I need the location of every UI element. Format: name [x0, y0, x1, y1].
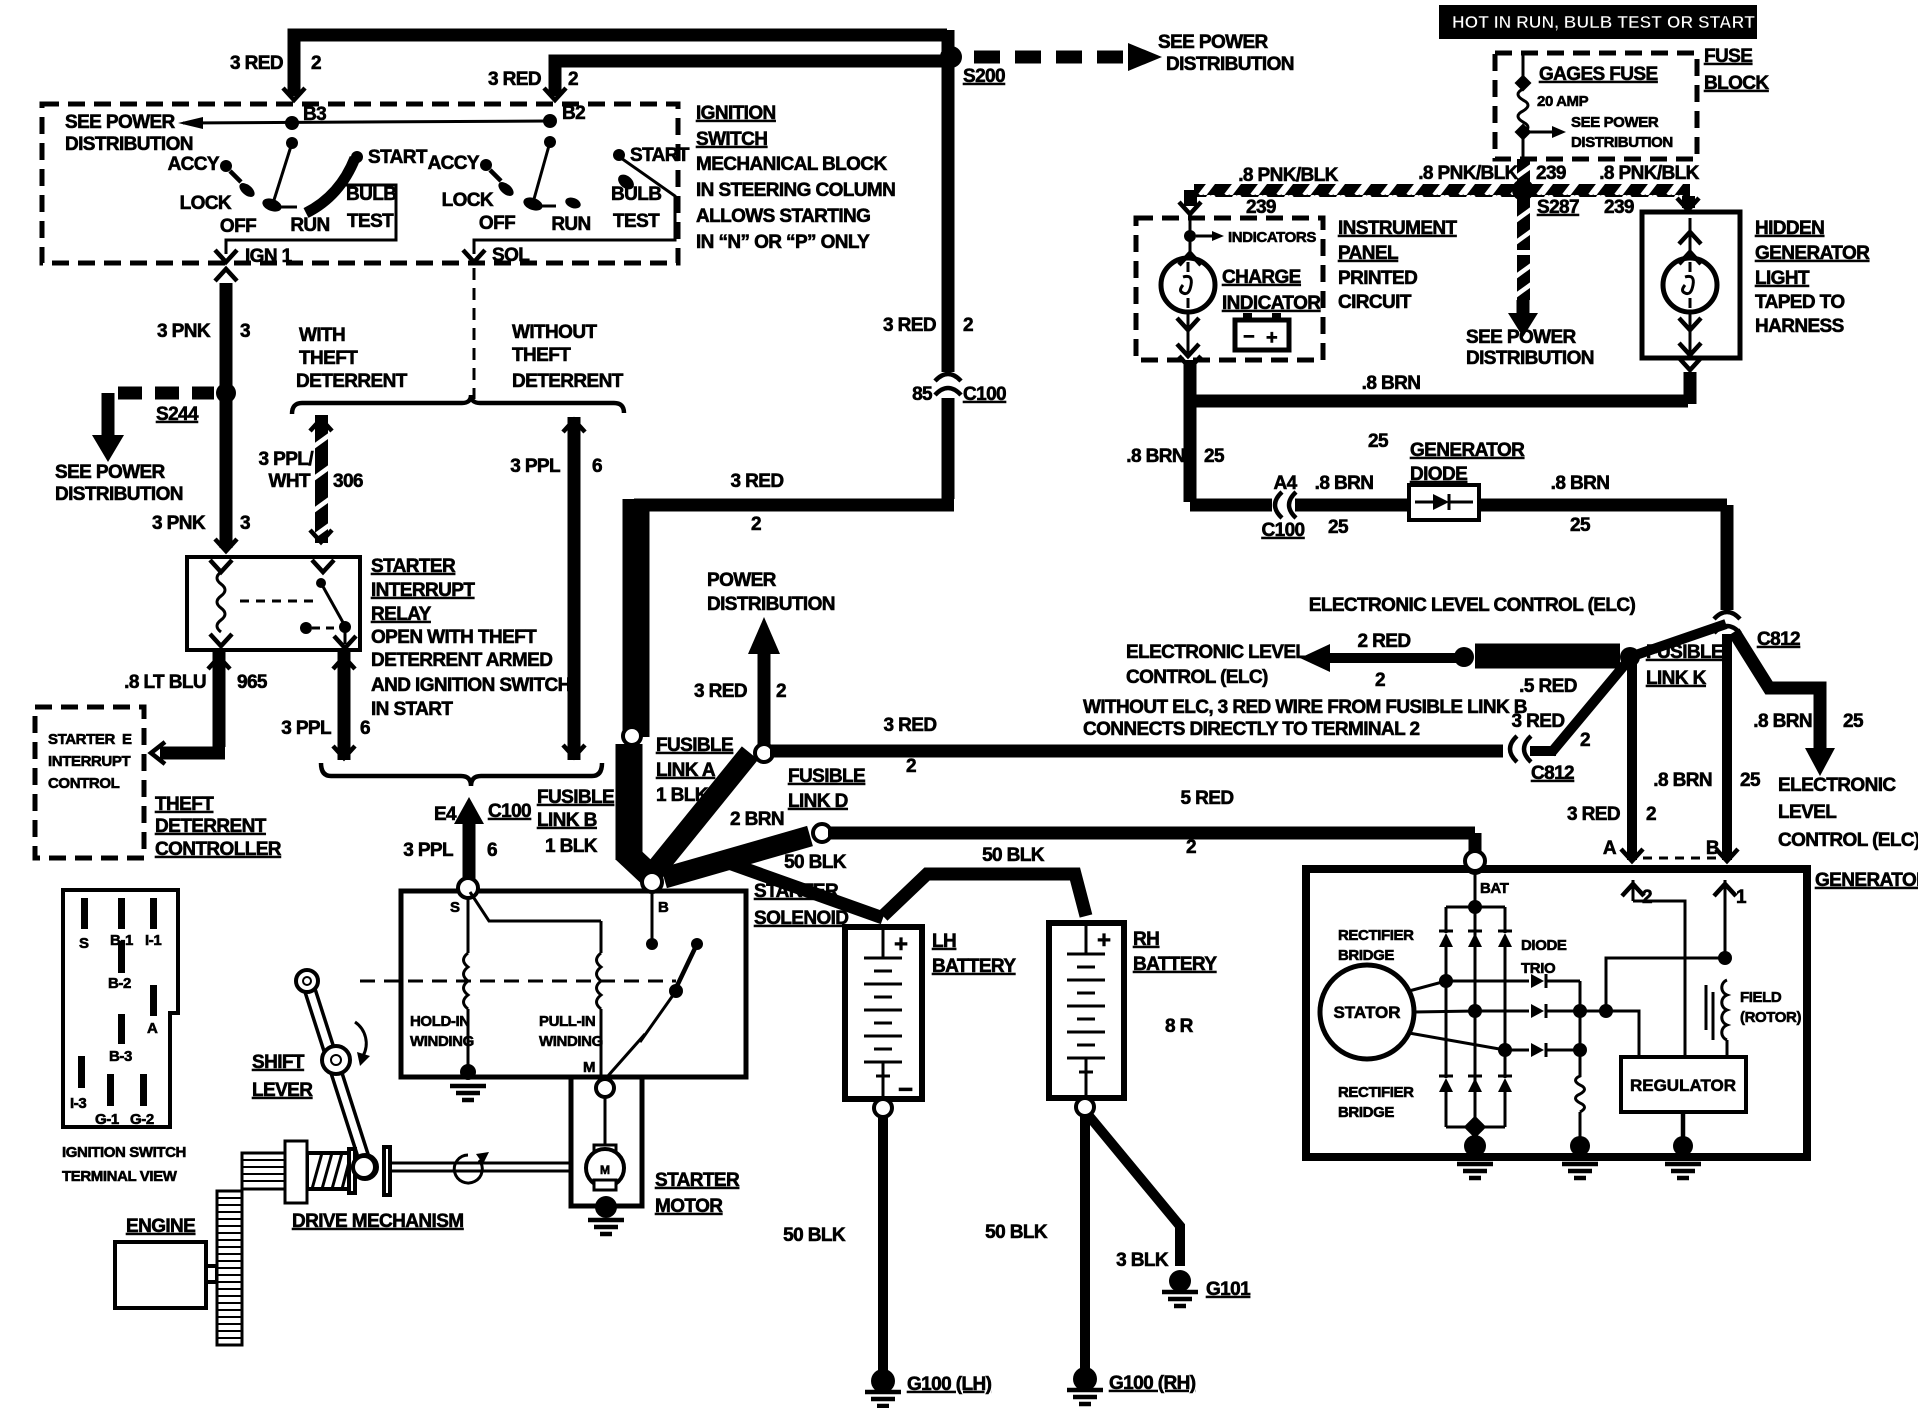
svg-text:IGNITION: IGNITION: [696, 103, 776, 124]
svg-text:E4: E4: [434, 804, 457, 825]
svg-text:50 BLK: 50 BLK: [985, 1222, 1048, 1243]
svg-text:LINK D: LINK D: [788, 791, 848, 812]
svg-text:LINK A: LINK A: [656, 760, 716, 781]
svg-text:S287: S287: [1537, 197, 1579, 218]
svg-text:TEST: TEST: [347, 211, 394, 232]
svg-text:2 BRN: 2 BRN: [730, 809, 784, 830]
svg-text:(ROTOR): (ROTOR): [1740, 1009, 1801, 1026]
svg-text:INDICATOR: INDICATOR: [1222, 293, 1321, 314]
svg-text:I-1: I-1: [145, 932, 161, 949]
svg-text:3 RED: 3 RED: [488, 69, 541, 90]
svg-text:BATTERY: BATTERY: [1133, 954, 1217, 975]
svg-text:DISTRIBUTION: DISTRIBUTION: [65, 134, 193, 155]
svg-text:SEE POWER: SEE POWER: [1158, 32, 1269, 53]
svg-text:SEE POWER: SEE POWER: [65, 112, 176, 133]
svg-text:I-3: I-3: [70, 1095, 86, 1112]
svg-text:2: 2: [568, 69, 578, 90]
svg-text:TERMINAL VIEW: TERMINAL VIEW: [62, 1168, 178, 1185]
svg-text:ELECTRONIC: ELECTRONIC: [1778, 775, 1896, 796]
svg-text:25: 25: [1328, 517, 1349, 538]
svg-text:G100 (RH): G100 (RH): [1109, 1373, 1196, 1394]
svg-text:ENGINE: ENGINE: [126, 1216, 195, 1237]
svg-text:+: +: [1266, 327, 1278, 349]
svg-text:START: START: [630, 145, 690, 166]
svg-text:GAGES FUSE: GAGES FUSE: [1539, 64, 1658, 85]
svg-text:3: 3: [240, 513, 250, 534]
svg-text:2: 2: [311, 53, 321, 74]
svg-text:50 BLK: 50 BLK: [982, 845, 1045, 866]
svg-text:.8 BRN: .8 BRN: [1551, 473, 1610, 494]
svg-text:2: 2: [1186, 837, 1196, 858]
svg-text:85: 85: [912, 384, 933, 405]
svg-text:LEVER: LEVER: [252, 1080, 313, 1101]
svg-text:WITH: WITH: [299, 325, 345, 346]
svg-text:+: +: [894, 931, 908, 958]
svg-text:WITHOUT ELC, 3 RED WIRE FROM F: WITHOUT ELC, 3 RED WIRE FROM FUSIBLE LIN…: [1083, 697, 1527, 718]
svg-text:.8 PNK/BLK: .8 PNK/BLK: [1238, 165, 1338, 186]
svg-text:THEFT: THEFT: [155, 794, 214, 815]
svg-text:M: M: [600, 1163, 610, 1177]
svg-text:FUSIBLE: FUSIBLE: [537, 787, 614, 808]
svg-text:OFF: OFF: [220, 216, 256, 237]
svg-text:CONTROL: CONTROL: [48, 775, 120, 792]
svg-text:3 PPL/: 3 PPL/: [259, 449, 315, 470]
svg-text:LEVEL: LEVEL: [1778, 802, 1837, 823]
svg-text:B-1: B-1: [110, 932, 133, 949]
svg-text:FUSIBLE: FUSIBLE: [656, 735, 733, 756]
svg-text:B: B: [658, 899, 669, 916]
svg-text:3 RED: 3 RED: [230, 53, 283, 74]
svg-text:LOCK: LOCK: [180, 193, 232, 214]
svg-text:DETERRENT: DETERRENT: [296, 371, 408, 392]
svg-text:ALLOWS STARTING: ALLOWS STARTING: [696, 206, 870, 227]
svg-text:LH: LH: [932, 931, 956, 952]
svg-text:C100: C100: [963, 384, 1006, 405]
svg-text:WINDING: WINDING: [410, 1033, 474, 1050]
svg-text:DISTRIBUTION: DISTRIBUTION: [1166, 54, 1294, 75]
svg-text:6: 6: [360, 718, 370, 739]
svg-text:OPEN WITH THEFT: OPEN WITH THEFT: [371, 627, 537, 648]
svg-text:INDICATORS: INDICATORS: [1228, 229, 1316, 246]
svg-text:DISTRIBUTION: DISTRIBUTION: [707, 594, 835, 615]
svg-text:SHIFT: SHIFT: [252, 1052, 305, 1073]
svg-text:TEST: TEST: [613, 211, 660, 232]
svg-text:G-1: G-1: [95, 1111, 119, 1128]
svg-text:3 RED: 3 RED: [731, 471, 784, 492]
svg-text:DIODE: DIODE: [1410, 464, 1467, 485]
svg-text:1 BLK: 1 BLK: [656, 785, 709, 806]
svg-text:CONTROL (ELC): CONTROL (ELC): [1778, 830, 1918, 851]
svg-text:INSTRUMENT: INSTRUMENT: [1338, 218, 1458, 239]
svg-text:1: 1: [1736, 887, 1747, 908]
svg-text:3 PPL: 3 PPL: [510, 456, 561, 477]
svg-text:STARTER: STARTER: [371, 556, 456, 577]
svg-text:50 BLK: 50 BLK: [784, 852, 847, 873]
svg-text:ELECTRONIC LEVEL CONTROL (ELC): ELECTRONIC LEVEL CONTROL (ELC): [1309, 595, 1636, 616]
svg-text:BATTERY: BATTERY: [932, 956, 1016, 977]
svg-text:STARTER: STARTER: [48, 731, 115, 748]
svg-text:GENERATOR: GENERATOR: [1755, 243, 1870, 264]
svg-text:IN “N” OR “P” ONLY: IN “N” OR “P” ONLY: [696, 232, 870, 253]
svg-text:IGNITION SWITCH: IGNITION SWITCH: [62, 1144, 186, 1161]
svg-text:2: 2: [1642, 887, 1652, 908]
svg-text:BAT: BAT: [1480, 880, 1509, 897]
svg-text:RECTIFIER: RECTIFIER: [1338, 927, 1414, 944]
svg-text:E: E: [122, 731, 132, 748]
svg-text:HARNESS: HARNESS: [1755, 316, 1844, 337]
svg-text:SEE POWER: SEE POWER: [1466, 327, 1577, 348]
svg-text:G101: G101: [1206, 1279, 1251, 1300]
svg-text:LOCK: LOCK: [442, 190, 494, 211]
svg-text:IN STEERING COLUMN: IN STEERING COLUMN: [696, 180, 895, 201]
svg-text:DETERRENT ARMED: DETERRENT ARMED: [371, 650, 552, 671]
svg-text:CHARGE: CHARGE: [1222, 267, 1301, 288]
svg-text:RUN: RUN: [551, 214, 590, 235]
svg-text:SOLENOID: SOLENOID: [754, 908, 848, 929]
svg-text:.8 BRN: .8 BRN: [1126, 446, 1185, 467]
svg-text:A: A: [147, 1020, 158, 1037]
svg-text:3 RED: 3 RED: [694, 681, 747, 702]
svg-text:INTERRUPT: INTERRUPT: [48, 753, 130, 770]
svg-text:RUN: RUN: [290, 215, 329, 236]
svg-text:IGN 1: IGN 1: [245, 246, 293, 267]
svg-text:REGULATOR: REGULATOR: [1630, 1076, 1736, 1095]
svg-text:THEFT: THEFT: [299, 348, 358, 369]
svg-text:AND IGNITION SWITCH: AND IGNITION SWITCH: [371, 675, 571, 696]
svg-text:A: A: [1603, 838, 1617, 859]
svg-text:SOL: SOL: [492, 245, 530, 266]
svg-text:HOLD-IN: HOLD-IN: [410, 1013, 470, 1030]
svg-text:2: 2: [1375, 670, 1385, 691]
svg-text:3 RED: 3 RED: [1567, 804, 1620, 825]
svg-text:FUSE: FUSE: [1704, 46, 1752, 67]
svg-text:C812: C812: [1531, 763, 1574, 784]
svg-text:3: 3: [240, 321, 250, 342]
svg-text:2: 2: [1646, 804, 1656, 825]
svg-text:BULB: BULB: [346, 184, 396, 205]
svg-text:3 PNK: 3 PNK: [157, 321, 211, 342]
svg-text:THEFT: THEFT: [512, 345, 571, 366]
svg-text:POWER: POWER: [707, 570, 777, 591]
svg-text:A4: A4: [1273, 473, 1297, 494]
svg-text:FUSIBLE: FUSIBLE: [788, 766, 865, 787]
svg-text:25: 25: [1570, 515, 1591, 536]
svg-text:WHT: WHT: [269, 471, 311, 492]
svg-text:.8 PNK/BLK: .8 PNK/BLK: [1418, 163, 1518, 184]
svg-text:LINK B: LINK B: [537, 810, 597, 831]
svg-text:TAPED TO: TAPED TO: [1755, 292, 1845, 313]
svg-text:6: 6: [592, 456, 602, 477]
svg-text:SWITCH: SWITCH: [696, 129, 767, 150]
svg-text:965: 965: [237, 672, 268, 693]
svg-text:1 BLK: 1 BLK: [545, 836, 598, 857]
svg-text:G100 (LH): G100 (LH): [907, 1374, 992, 1395]
svg-text:BLOCK: BLOCK: [1704, 73, 1769, 94]
svg-text:LIGHT: LIGHT: [1755, 268, 1810, 289]
svg-text:.8 PNK/BLK: .8 PNK/BLK: [1599, 163, 1699, 184]
svg-text:B: B: [1706, 838, 1719, 859]
svg-text:239: 239: [1604, 197, 1634, 218]
svg-text:306: 306: [333, 471, 363, 492]
svg-text:.8 BRN: .8 BRN: [1653, 770, 1712, 791]
svg-text:INTERRUPT: INTERRUPT: [371, 580, 475, 601]
svg-text:DIODE: DIODE: [1521, 937, 1567, 954]
svg-text:CIRCUIT: CIRCUIT: [1338, 292, 1412, 313]
svg-text:6: 6: [487, 840, 497, 861]
svg-text:RELAY: RELAY: [371, 604, 432, 625]
svg-text:WITHOUT: WITHOUT: [512, 322, 597, 343]
svg-text:20 AMP: 20 AMP: [1537, 93, 1589, 110]
svg-text:G-2: G-2: [130, 1111, 154, 1128]
svg-text:−: −: [898, 1074, 913, 1104]
svg-text:25: 25: [1368, 431, 1389, 452]
svg-text:2: 2: [776, 681, 786, 702]
svg-text:WINDING: WINDING: [539, 1033, 603, 1050]
svg-text:MECHANICAL BLOCK: MECHANICAL BLOCK: [696, 154, 887, 175]
svg-text:3 PNK: 3 PNK: [152, 513, 206, 534]
svg-text:3 RED: 3 RED: [884, 715, 937, 736]
svg-text:.8 BRN: .8 BRN: [1315, 473, 1374, 494]
svg-text:C100: C100: [488, 801, 531, 822]
svg-text:DRIVE MECHANISM: DRIVE MECHANISM: [292, 1211, 464, 1232]
svg-text:SEE POWER: SEE POWER: [55, 462, 166, 483]
svg-text:SEE POWER: SEE POWER: [1571, 114, 1659, 131]
svg-text:FIELD: FIELD: [1740, 989, 1782, 1006]
svg-text:RH: RH: [1133, 929, 1159, 950]
svg-text:PANEL: PANEL: [1338, 243, 1399, 264]
svg-text:−: −: [1243, 326, 1255, 348]
svg-text:RECTIFIER: RECTIFIER: [1338, 1084, 1414, 1101]
svg-text:.8 BRN: .8 BRN: [1753, 711, 1812, 732]
svg-text:DETERRENT: DETERRENT: [512, 371, 624, 392]
svg-text:STARTER: STARTER: [655, 1170, 740, 1191]
svg-text:ACCY: ACCY: [168, 154, 220, 175]
svg-text:C100: C100: [1261, 520, 1304, 541]
svg-text:CONNECTS DIRECTLY TO TERMINAL: CONNECTS DIRECTLY TO TERMINAL 2: [1083, 719, 1419, 740]
svg-text:25: 25: [1843, 711, 1864, 732]
svg-text:BULB: BULB: [611, 184, 661, 205]
svg-text:GENERATOR: GENERATOR: [1410, 440, 1525, 461]
svg-text:STATOR: STATOR: [1333, 1003, 1400, 1022]
svg-text:DISTRIBUTION: DISTRIBUTION: [1466, 348, 1594, 369]
svg-text:2 RED: 2 RED: [1358, 631, 1411, 652]
svg-text:BRIDGE: BRIDGE: [1338, 1104, 1394, 1121]
svg-text:OFF: OFF: [479, 213, 515, 234]
svg-text:DETERRENT: DETERRENT: [155, 816, 267, 837]
svg-text:S: S: [450, 899, 460, 916]
svg-text:BRIDGE: BRIDGE: [1338, 947, 1394, 964]
svg-text:CONTROLLER: CONTROLLER: [155, 839, 282, 860]
svg-text:DISTRIBUTION: DISTRIBUTION: [55, 484, 183, 505]
svg-text:2: 2: [751, 514, 761, 535]
svg-text:.5 RED: .5 RED: [1519, 676, 1577, 697]
svg-text:+: +: [1097, 927, 1111, 954]
svg-text:8 R: 8 R: [1165, 1016, 1194, 1037]
svg-text:PULL-IN: PULL-IN: [539, 1013, 595, 1030]
svg-text:3 PPL: 3 PPL: [403, 840, 454, 861]
svg-text:M: M: [583, 1059, 595, 1076]
svg-text:3 RED: 3 RED: [883, 315, 936, 336]
svg-text:ELECTRONIC LEVEL: ELECTRONIC LEVEL: [1126, 642, 1307, 663]
svg-text:LINK K: LINK K: [1646, 668, 1707, 689]
svg-text:CONTROL (ELC): CONTROL (ELC): [1126, 667, 1268, 688]
svg-text:S244: S244: [156, 404, 199, 425]
svg-text:50 BLK: 50 BLK: [783, 1225, 846, 1246]
svg-text:HOT IN RUN, BULB TEST OR START: HOT IN RUN, BULB TEST OR START: [1452, 12, 1755, 32]
svg-text:GENERATOR: GENERATOR: [1815, 870, 1918, 891]
svg-text:B2: B2: [562, 103, 585, 124]
svg-text:239: 239: [1536, 163, 1566, 184]
svg-text:2: 2: [1580, 730, 1590, 751]
svg-text:ACCY: ACCY: [428, 153, 480, 174]
svg-text:3 PPL: 3 PPL: [281, 718, 332, 739]
svg-text:STARTER: STARTER: [754, 881, 839, 902]
svg-text:3 BLK: 3 BLK: [1116, 1250, 1169, 1271]
svg-text:IN START: IN START: [371, 699, 453, 720]
svg-text:B-2: B-2: [108, 975, 131, 992]
svg-text:25: 25: [1740, 770, 1761, 791]
svg-text:25: 25: [1204, 446, 1225, 467]
svg-text:2: 2: [906, 756, 916, 777]
svg-text:HIDDEN: HIDDEN: [1755, 218, 1824, 239]
svg-text:.8 LT BLU: .8 LT BLU: [124, 672, 206, 693]
svg-text:TRIO: TRIO: [1521, 960, 1556, 977]
svg-text:.8 BRN: .8 BRN: [1362, 373, 1421, 394]
svg-text:5 RED: 5 RED: [1181, 788, 1234, 809]
svg-text:S200: S200: [963, 66, 1005, 87]
svg-text:C812: C812: [1757, 629, 1800, 650]
svg-text:B-3: B-3: [109, 1048, 132, 1065]
svg-text:START: START: [368, 147, 428, 168]
svg-text:2: 2: [963, 315, 973, 336]
svg-text:DISTRIBUTION: DISTRIBUTION: [1571, 134, 1673, 151]
svg-text:S: S: [79, 935, 89, 952]
svg-text:MOTOR: MOTOR: [655, 1196, 723, 1217]
svg-text:239: 239: [1246, 197, 1276, 218]
svg-text:PRINTED: PRINTED: [1338, 268, 1417, 289]
